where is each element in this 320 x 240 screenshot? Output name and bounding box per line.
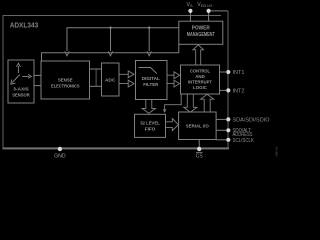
block 32 LEVEL FIFO	[135, 114, 166, 137]
pin SDO	[226, 128, 230, 132]
pin SCL	[226, 138, 230, 142]
block SENSE ELECTRONICS	[41, 61, 90, 99]
wire SDO	[216, 129, 226, 131]
power drop arrow into digital filter	[147, 51, 151, 56]
block POWER MANAGEMENT	[179, 21, 223, 44]
svg-text:CONTROL: CONTROL	[190, 68, 210, 73]
sensor axis arrow right	[22, 74, 31, 78]
svg-text:AND: AND	[195, 74, 205, 79]
wire SCL	[216, 139, 226, 141]
svg-text:SDA/SDI/SDIO: SDA/SDI/SDIO	[233, 118, 270, 124]
wire control to fifo trigger	[165, 94, 182, 109]
power drop arrow into ADC	[108, 51, 112, 56]
svg-text:SCL/SCLK: SCL/SCLK	[233, 138, 255, 144]
arrowhead control to fifo	[163, 109, 166, 113]
wire SDA	[216, 118, 226, 120]
power drop arrow into sense electronics	[65, 51, 69, 56]
power rail from power management	[67, 28, 179, 51]
svg-text:3-AXIS: 3-AXIS	[13, 87, 29, 92]
svg-text:32 LEVEL: 32 LEVEL	[140, 120, 160, 125]
block ADC	[102, 63, 120, 96]
svg-text:ADC: ADC	[105, 77, 116, 82]
svg-text:INTERRUPT: INTERRUPT	[188, 79, 212, 84]
sensor axis arrow diagonal	[11, 75, 20, 85]
bus arrow fifo to serial io	[166, 119, 179, 131]
pin VS	[188, 9, 192, 13]
overline CS	[196, 151, 203, 153]
pin INT2	[226, 88, 230, 92]
svg-text:DIGITAL: DIGITAL	[142, 76, 160, 81]
pin INT1	[226, 70, 230, 74]
wire VS to power management	[189, 13, 191, 21]
svg-text:SENSE: SENSE	[58, 78, 73, 83]
svg-text:LOGIC: LOGIC	[193, 85, 208, 90]
bus arrow control to serial io	[184, 94, 197, 112]
wire VDD I/O to power management	[208, 13, 210, 21]
block SERIAL I/O	[179, 112, 217, 140]
power drop wire into digital filter	[148, 28, 150, 51]
power drop wire into ADC	[110, 28, 112, 51]
bus arrow ADC to digital filter lower	[119, 80, 134, 87]
svg-text:SERIAL I/O: SERIAL I/O	[186, 124, 209, 129]
bus arrow digital filter to control lower	[167, 80, 180, 87]
block 3-AXIS SENSOR	[8, 60, 34, 103]
wire joining ADC input pair	[95, 69, 97, 86]
svg-text:ADXL343: ADXL343	[10, 21, 39, 30]
svg-text:POWER: POWER	[192, 25, 210, 31]
bus arrow digital filter to control upper	[167, 72, 180, 79]
svg-text:MANAGEMENT: MANAGEMENT	[187, 32, 215, 38]
block CONTROL AND INTERRUPT LOGIC	[181, 65, 220, 94]
junction node on rail	[109, 27, 111, 29]
svg-text:FIFO: FIFO	[145, 126, 156, 131]
svg-text:08554-001: 08554-001	[274, 146, 278, 156]
chip boundary ADXL343	[3, 11, 228, 147]
wire CS	[198, 140, 200, 147]
wire INT1	[220, 71, 227, 73]
block DIGITAL FILTER	[136, 61, 168, 100]
bus arrow serial io to control	[201, 94, 214, 112]
svg-text:ELECTRONICS: ELECTRONICS	[51, 84, 80, 89]
svg-text:SENSOR: SENSOR	[12, 93, 30, 98]
filter response glyph	[139, 67, 157, 73]
bus arrow control to power management	[193, 45, 204, 65]
wire sense electronics to ADC upper	[90, 68, 102, 70]
bus arrow ADC to digital filter upper	[119, 71, 134, 78]
chip boundary bottom edge	[3, 147, 230, 149]
wire sense electronics to ADC lower	[90, 85, 102, 87]
wire sensor to sense electronics lower	[34, 85, 41, 87]
pin GND	[58, 147, 62, 151]
svg-text:INT2: INT2	[233, 89, 245, 95]
pin CS	[197, 147, 201, 151]
power feed wire from power management to sense electronics	[42, 44, 179, 61]
svg-text:CS: CS	[196, 154, 204, 160]
wire sensor to sense electronics upper	[34, 74, 41, 76]
svg-text:FILTER: FILTER	[143, 82, 159, 87]
wire VDD I/O to right rail	[211, 10, 228, 12]
pin SDA	[226, 117, 230, 121]
svg-text:INT1: INT1	[233, 70, 245, 76]
svg-text:GND: GND	[54, 154, 66, 160]
wire INT2	[220, 89, 227, 91]
bus arrow digital filter to fifo	[142, 100, 155, 114]
junction node on rail	[148, 27, 150, 29]
sensor axis arrow up	[16, 63, 20, 73]
pin VDD I/O	[207, 9, 211, 13]
